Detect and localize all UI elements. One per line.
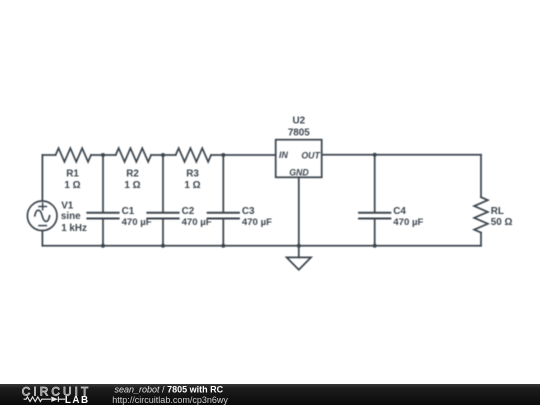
svg-text:U2: U2 bbox=[292, 116, 305, 127]
wire U2 GND pin bbox=[298, 177, 300, 257]
svg-text:R3: R3 bbox=[186, 169, 199, 180]
bottom rail junction dot C1 bbox=[101, 244, 105, 248]
svg-text:V1: V1 bbox=[61, 201, 74, 212]
node B junction dot bbox=[161, 153, 165, 157]
wire right column bottom bbox=[480, 233, 482, 246]
footer bar bbox=[0, 384, 540, 405]
resistor R1 bbox=[56, 148, 91, 162]
node OUT junction dot bbox=[373, 153, 377, 157]
capacitor C3 wires bbox=[222, 155, 224, 246]
capacitor C4 plates bbox=[359, 213, 390, 219]
wire right column top bbox=[480, 155, 482, 197]
svg-text:470 µF: 470 µF bbox=[122, 217, 152, 228]
svg-text:470 µF: 470 µF bbox=[182, 217, 212, 228]
svg-text:sine: sine bbox=[61, 211, 81, 222]
resistor R3 bbox=[176, 148, 211, 162]
resistor RL bbox=[474, 197, 488, 232]
V1 sine wave bbox=[35, 210, 50, 221]
svg-text:IN: IN bbox=[279, 150, 288, 160]
svg-text:1 Ω: 1 Ω bbox=[64, 180, 80, 191]
svg-text:1 kHz: 1 kHz bbox=[61, 223, 87, 234]
svg-text:http://circuitlab.com/cp3n6wy: http://circuitlab.com/cp3n6wy bbox=[112, 395, 228, 405]
wire left column bottom bbox=[41, 231, 43, 246]
wire R3 to U2 IN bbox=[211, 154, 276, 156]
wire left column top bbox=[41, 155, 43, 201]
V1 plus sign bbox=[39, 203, 47, 209]
svg-text:GND: GND bbox=[289, 167, 309, 177]
node C junction dot bbox=[221, 153, 225, 157]
wire R2 to node B bbox=[151, 154, 176, 156]
svg-text:RL: RL bbox=[491, 206, 504, 217]
wire U2 OUT to right column bbox=[322, 154, 481, 156]
V1 minus sign bbox=[39, 225, 47, 227]
svg-text:C4: C4 bbox=[393, 206, 406, 217]
capacitor C2 plates bbox=[147, 213, 178, 219]
capacitor C4 wires bbox=[374, 155, 376, 246]
wire R1 to node A bbox=[91, 154, 116, 156]
bottom rail junction dot C2 bbox=[161, 244, 165, 248]
svg-text:OUT: OUT bbox=[301, 150, 320, 160]
IC U2 7805 regulator box bbox=[276, 140, 322, 178]
bottom rail junction dot C3 bbox=[221, 244, 225, 248]
svg-text:R1: R1 bbox=[66, 169, 79, 180]
ground bbox=[287, 257, 311, 269]
bottom rail junction dot C4 bbox=[373, 244, 377, 248]
svg-text:C1: C1 bbox=[122, 206, 135, 217]
svg-text:470 µF: 470 µF bbox=[242, 217, 272, 228]
svg-text:470 µF: 470 µF bbox=[393, 217, 423, 228]
svg-text:LAB: LAB bbox=[65, 395, 90, 405]
svg-text:R2: R2 bbox=[126, 169, 139, 180]
svg-text:1 Ω: 1 Ω bbox=[184, 180, 200, 191]
logo diode symbol bbox=[51, 397, 58, 402]
resistor R2 bbox=[116, 148, 151, 162]
svg-text:7805: 7805 bbox=[288, 127, 310, 138]
wire bottom rail bbox=[42, 245, 481, 247]
svg-text:50 Ω: 50 Ω bbox=[491, 217, 513, 228]
capacitor C1 wires bbox=[102, 155, 104, 246]
svg-text:1 Ω: 1 Ω bbox=[124, 180, 140, 191]
capacitor C3 plates bbox=[208, 213, 239, 219]
svg-text:sean_robot / 7805 with RC: sean_robot / 7805 with RC bbox=[115, 384, 224, 394]
capacitor C1 plates bbox=[87, 213, 118, 219]
logo resistor squiggle bbox=[24, 397, 51, 402]
voltage source V1 circle bbox=[27, 201, 57, 231]
wire top rail V1 to R1 bbox=[42, 154, 55, 156]
capacitor C2 wires bbox=[162, 155, 164, 246]
node A junction dot bbox=[101, 153, 105, 157]
svg-text:C2: C2 bbox=[182, 206, 195, 217]
bottom rail junction dot GND bbox=[297, 244, 301, 248]
svg-text:C3: C3 bbox=[242, 206, 255, 217]
